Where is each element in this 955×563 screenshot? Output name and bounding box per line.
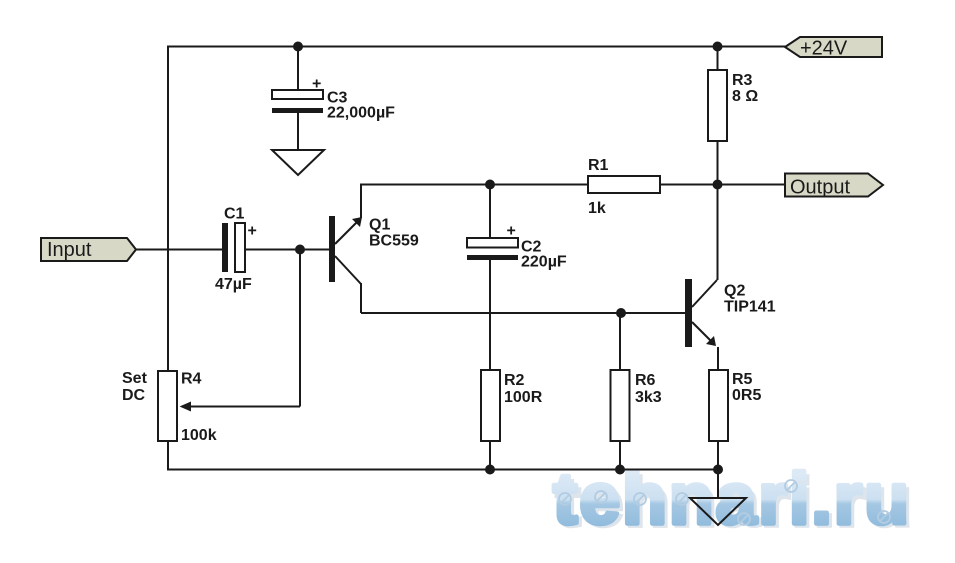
svg-text:+: + xyxy=(507,223,516,240)
svg-text:100R: 100R xyxy=(504,389,543,406)
svg-text:Set: Set xyxy=(122,370,148,387)
svg-text:8 Ω: 8 Ω xyxy=(732,88,758,105)
svg-text:Q2: Q2 xyxy=(724,283,745,300)
svg-text:47µF: 47µF xyxy=(215,276,252,293)
svg-text:22,000µF: 22,000µF xyxy=(327,105,395,122)
svg-text:R1: R1 xyxy=(588,157,609,174)
svg-text:R3: R3 xyxy=(732,72,753,89)
svg-text:R4: R4 xyxy=(181,371,202,388)
svg-text:TIP141: TIP141 xyxy=(724,299,776,316)
svg-text:R5: R5 xyxy=(732,371,753,388)
svg-text:C1: C1 xyxy=(224,206,245,223)
svg-text:220µF: 220µF xyxy=(521,254,567,271)
svg-text:BC559: BC559 xyxy=(369,233,419,250)
svg-text:+24V: +24V xyxy=(800,38,848,60)
svg-text:100k: 100k xyxy=(181,427,217,444)
svg-text:+: + xyxy=(248,223,257,240)
svg-text:1k: 1k xyxy=(588,200,606,217)
svg-text:Input: Input xyxy=(47,239,92,261)
svg-text:Q1: Q1 xyxy=(369,217,390,234)
svg-text:R2: R2 xyxy=(504,372,525,389)
svg-text:3k3: 3k3 xyxy=(635,389,662,406)
svg-text:Output: Output xyxy=(790,177,850,199)
svg-text:DC: DC xyxy=(122,387,146,404)
svg-text:+: + xyxy=(312,76,321,93)
svg-text:0R5: 0R5 xyxy=(732,387,761,404)
svg-text:R6: R6 xyxy=(635,372,656,389)
